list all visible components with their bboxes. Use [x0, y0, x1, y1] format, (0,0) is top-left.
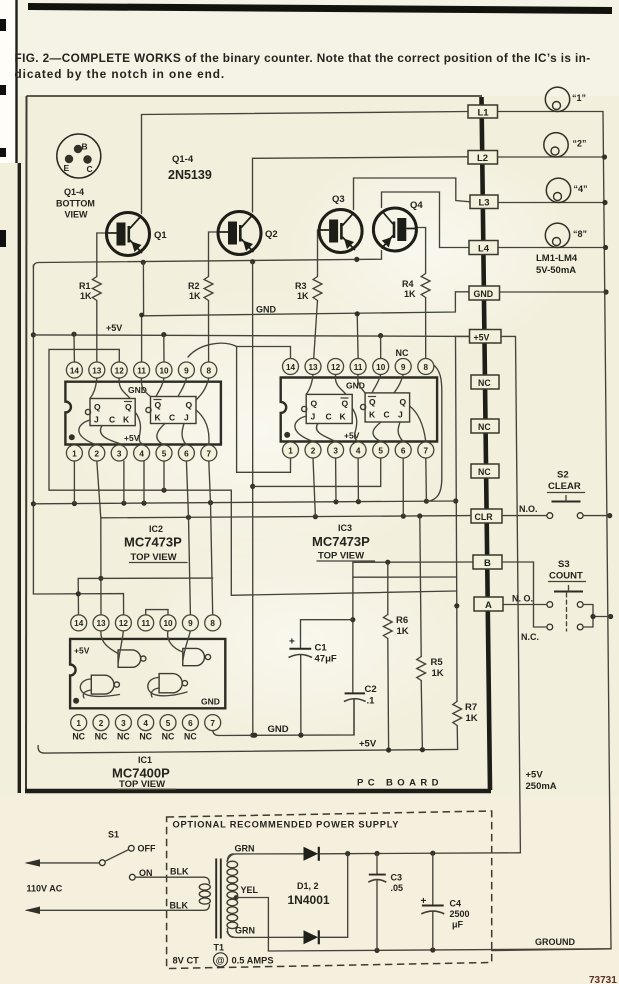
- svg-text:OFF: OFF: [138, 844, 156, 854]
- svg-text:“8”: “8”: [573, 229, 587, 239]
- capacitor C4: [421, 853, 470, 950]
- svg-text:13: 13: [92, 366, 102, 375]
- switch S3: [512, 559, 586, 642]
- node NC terminal 2: [471, 419, 499, 433]
- svg-text:MC7473P: MC7473P: [124, 535, 182, 550]
- wire: IC2 pin12 loop: [49, 349, 457, 595]
- IC1 pin 3: [115, 715, 131, 731]
- svg-text:S3: S3: [558, 559, 570, 570]
- IC3 pin 2: [305, 442, 321, 458]
- svg-text:Q: Q: [342, 399, 349, 409]
- svg-text:1K: 1K: [297, 291, 309, 301]
- svg-text:S2: S2: [557, 470, 569, 481]
- svg-text:ON: ON: [139, 868, 153, 878]
- svg-text:2: 2: [95, 449, 100, 458]
- wire: L3 lamp wire: [498, 202, 605, 204]
- wire: Q2 collector to L2: [253, 157, 469, 212]
- wire: left vertical feeder: [31, 265, 36, 594]
- svg-text:NC: NC: [478, 378, 491, 388]
- wire: emitter rail: [33, 251, 381, 269]
- svg-text:11: 11: [141, 619, 150, 628]
- svg-text:+5V: +5V: [124, 433, 140, 443]
- svg-text:14: 14: [74, 619, 84, 628]
- node L3 terminal: [470, 195, 498, 209]
- transistor Q1: [107, 213, 168, 256]
- svg-text:R4: R4: [402, 279, 414, 289]
- svg-text:2: 2: [311, 446, 316, 455]
- resistor R7: [453, 702, 478, 750]
- node GND terminal: [469, 286, 500, 300]
- svg-text:2N5139: 2N5139: [168, 168, 212, 182]
- label 8V CT @ 0.5 AMPS: [173, 953, 274, 967]
- resistor R2: [188, 232, 218, 362]
- IC2 pin 12: [111, 362, 127, 378]
- svg-text:10: 10: [376, 363, 386, 372]
- node NC terminal 1: [471, 375, 499, 389]
- label IC1 MC7400P TOP VIEW: [112, 755, 176, 790]
- IC1 pin 5: [160, 715, 176, 731]
- IC2 internal flip-flop 2: [146, 397, 196, 424]
- svg-text:0.5 AMPS: 0.5 AMPS: [232, 956, 274, 966]
- resistor R1: [79, 233, 107, 362]
- label D1,2 1N4001: [288, 881, 330, 907]
- lamp LM3: [546, 178, 587, 202]
- svg-text:IC1: IC1: [138, 755, 152, 765]
- svg-text:1K: 1K: [432, 668, 444, 679]
- IC2 internal wiring curves: [79, 378, 209, 445]
- svg-text:Q3: Q3: [332, 194, 345, 205]
- svg-text:Q4: Q4: [410, 200, 423, 211]
- svg-text:1K: 1K: [189, 291, 201, 301]
- IC1 pin 14: [71, 615, 87, 631]
- svg-text:L1: L1: [478, 108, 490, 119]
- wire: IC1 pins 11-10 bridge: [146, 610, 168, 615]
- IC1 pin 1: [71, 715, 87, 731]
- resistor R3: [295, 230, 327, 362]
- svg-text:μF: μF: [452, 920, 464, 930]
- svg-text:R2: R2: [188, 281, 200, 291]
- IC1 NAND gate C: [80, 675, 119, 698]
- wire: IC2 pin6 to IC1 pin9: [186, 461, 190, 615]
- node +5V terminal: [470, 330, 502, 344]
- svg-text:.1: .1: [367, 696, 376, 707]
- svg-text:J: J: [311, 412, 316, 422]
- IC2 pin 3: [111, 445, 127, 461]
- svg-text:8: 8: [424, 363, 429, 372]
- op-amp U_IC3 body MC7473P: [281, 378, 437, 442]
- svg-text:OPTIONAL RECOMMENDED POWER SUP: OPTIONAL RECOMMENDED POWER SUPPLY: [173, 820, 400, 830]
- svg-text:6: 6: [184, 449, 189, 458]
- lamp LM1: [545, 87, 586, 111]
- IC3 pin 8: [418, 359, 434, 375]
- wire: clear rail y517: [101, 513, 471, 520]
- IC2 pin 11: [134, 362, 150, 378]
- wire: IC2 pin5 stub: [163, 461, 165, 490]
- wire: D2 riser: [320, 854, 348, 938]
- wire: IC3 pin4 stub: [357, 458, 359, 502]
- svg-text:1: 1: [76, 719, 81, 728]
- IC3 internal flip-flop 1: [302, 394, 353, 423]
- svg-text:dicated by the notch in one en: dicated by the notch in one end.: [15, 67, 226, 81]
- wire: AC line lower with arrow: [25, 907, 205, 915]
- lamp LM4: [545, 223, 587, 247]
- svg-text:+5V: +5V: [526, 770, 544, 781]
- wire: AC line upper with arrow: [25, 859, 100, 866]
- IC2 pin 6: [178, 445, 194, 461]
- svg-text:+: +: [289, 637, 295, 648]
- svg-text:N.C.: N.C.: [521, 632, 539, 642]
- svg-text:NC: NC: [95, 732, 108, 742]
- IC1 pin 10: [160, 615, 176, 631]
- left gutter bar: [18, 163, 21, 793]
- transistor Q4: [373, 200, 423, 251]
- transformer T1: [199, 854, 238, 953]
- svg-text:BLK: BLK: [170, 900, 189, 910]
- wire: C1 to C2 top link: [301, 619, 353, 621]
- wire: right ground rail: [492, 112, 614, 951]
- svg-text:B: B: [82, 142, 88, 152]
- svg-text:Q: Q: [311, 399, 318, 409]
- wire: S3 common to right rail: [583, 605, 610, 628]
- svg-text:10: 10: [163, 619, 173, 628]
- node L1 terminal: [468, 105, 498, 119]
- wire: CLR to S2: [502, 515, 610, 517]
- svg-text:8: 8: [210, 619, 215, 628]
- svg-text:8: 8: [207, 366, 212, 375]
- wire: rectifier output bus: [320, 851, 521, 857]
- wire: IC3 pin5 loop: [253, 458, 381, 486]
- svg-text:NC: NC: [72, 732, 85, 742]
- svg-text:LM1-LM4: LM1-LM4: [536, 253, 578, 264]
- node L2 terminal: [468, 151, 498, 165]
- svg-text:“2”: “2”: [573, 139, 587, 149]
- svg-text:11: 11: [137, 366, 146, 375]
- svg-text:NC: NC: [162, 732, 175, 742]
- svg-text:NC: NC: [478, 467, 491, 477]
- wire: Q1 collector to L1: [142, 112, 469, 214]
- svg-text:6: 6: [401, 446, 406, 455]
- wire: supply ground rail: [268, 947, 611, 953]
- svg-text:C: C: [384, 410, 390, 420]
- svg-text:@: @: [216, 955, 225, 965]
- IC3 pin 10: [373, 359, 389, 375]
- wire: IC2 pin10 stub: [163, 335, 165, 362]
- svg-text:.05: .05: [391, 883, 404, 893]
- svg-text:4: 4: [139, 449, 144, 458]
- svg-text:S1: S1: [108, 830, 119, 840]
- svg-text:R5: R5: [431, 657, 444, 668]
- left margin white box: [0, 0, 16, 163]
- IC3 internal flip-flop 2: [361, 393, 410, 422]
- svg-text:R3: R3: [295, 281, 307, 291]
- resistor R5: [417, 516, 444, 749]
- wire: IC3 pin11 stub: [355, 311, 360, 358]
- svg-text:3: 3: [117, 449, 122, 458]
- svg-text:1: 1: [72, 449, 77, 458]
- svg-text:250mA: 250mA: [526, 781, 557, 792]
- svg-text:R1: R1: [79, 281, 91, 291]
- IC1 pin 7: [205, 715, 221, 731]
- label IC2 MC7473P TOP VIEW: [124, 524, 187, 563]
- svg-text:47μF: 47μF: [315, 654, 337, 665]
- IC3 pin 5: [373, 442, 389, 458]
- svg-text:N.O.: N.O.: [519, 504, 538, 514]
- svg-text:+5V: +5V: [359, 739, 377, 750]
- IC1 pin 8: [205, 615, 221, 631]
- wire: L2 lamp wire: [498, 156, 605, 158]
- IC2 pin 7: [201, 445, 217, 461]
- svg-text:7: 7: [207, 449, 212, 458]
- wire: IC3 pin8 side loop: [428, 364, 442, 501]
- svg-text:1K: 1K: [397, 626, 409, 637]
- IC3 pin 4: [350, 442, 366, 458]
- svg-text:TOP VIEW: TOP VIEW: [318, 551, 364, 562]
- svg-text:K: K: [155, 413, 162, 423]
- op-amp U_IC2 body MC7473P: [65, 382, 221, 445]
- IC2 pin 4: [134, 445, 150, 461]
- svg-text:BOTTOM: BOTTOM: [56, 199, 95, 209]
- svg-text:NC: NC: [139, 732, 152, 742]
- svg-text:12: 12: [331, 363, 341, 372]
- wire: +5V bottom rail: [38, 746, 458, 754]
- svg-text:T1: T1: [214, 943, 225, 953]
- svg-text:3: 3: [121, 719, 126, 728]
- svg-text:K: K: [123, 415, 130, 425]
- svg-text:4: 4: [143, 719, 148, 728]
- svg-text:2500: 2500: [450, 909, 470, 919]
- svg-text:14: 14: [70, 366, 80, 375]
- IC3 internal wiring curves: [295, 375, 426, 442]
- svg-text:13: 13: [308, 363, 318, 372]
- label +5V 250mA: [526, 770, 557, 793]
- svg-text:L4: L4: [478, 244, 490, 255]
- svg-text:11: 11: [354, 363, 363, 372]
- svg-text:Q: Q: [125, 402, 132, 412]
- label LM1-LM4 5V-50mA: [536, 253, 578, 276]
- svg-text:1K: 1K: [466, 713, 478, 724]
- svg-text:+5V: +5V: [74, 646, 90, 656]
- IC3 pin 12: [328, 359, 344, 375]
- label Q1-4 2N5139: [168, 154, 212, 182]
- svg-text:NC: NC: [396, 348, 409, 358]
- wire: IC3 pin1 loop: [237, 347, 291, 473]
- wire: IC2 pin14 stub: [73, 334, 75, 361]
- svg-text:VIEW: VIEW: [65, 210, 89, 220]
- svg-text:BLK: BLK: [170, 867, 189, 877]
- wire: IC2 pin9 to IC3 pin14 loop: [188, 343, 291, 357]
- svg-text:C: C: [109, 415, 115, 425]
- node NC terminal 3: [471, 464, 499, 478]
- wire: IC2 pin1 stub: [73, 461, 75, 504]
- IC2 pin 1: [66, 445, 82, 461]
- node A terminal: [474, 597, 503, 611]
- wire: C2 to +5V link y577: [353, 576, 457, 578]
- wire: IC2 pin7 to IC1 pin8: [209, 461, 213, 615]
- svg-text:K: K: [369, 410, 376, 420]
- IC1 pin 13: [93, 615, 109, 631]
- svg-text:4: 4: [356, 446, 361, 455]
- svg-text:A: A: [485, 600, 492, 611]
- wire: L4 lamp wire: [498, 247, 606, 249]
- wire: IC1 pin14 feed rail y578: [78, 578, 213, 614]
- svg-text:7: 7: [424, 446, 429, 455]
- svg-text:IC3: IC3: [338, 523, 352, 533]
- svg-text:9: 9: [184, 366, 189, 375]
- svg-text:C4: C4: [450, 899, 462, 909]
- svg-text:5: 5: [378, 446, 383, 455]
- svg-text:5: 5: [166, 719, 171, 728]
- wire: Q2 emitter ground drop: [250, 262, 255, 738]
- IC2 pin 2: [89, 445, 105, 461]
- svg-text:D1, 2: D1, 2: [297, 881, 319, 891]
- wire: +5V distribution rail y501: [33, 499, 455, 507]
- IC3 pin 9: [395, 359, 411, 375]
- IC3 pin 13: [305, 359, 321, 375]
- lamp LM2: [544, 133, 587, 157]
- IC1 NAND gate D: [148, 674, 188, 697]
- svg-text:8V CT: 8V CT: [173, 956, 200, 966]
- svg-text:TOP VIEW: TOP VIEW: [131, 552, 177, 563]
- svg-text:110V AC: 110V AC: [27, 884, 63, 894]
- svg-text:3: 3: [333, 446, 338, 455]
- svg-text:Q: Q: [186, 400, 193, 410]
- IC2 pin 9: [178, 362, 194, 378]
- IC2 pin 14: [66, 362, 82, 378]
- svg-text:C3: C3: [391, 873, 403, 883]
- svg-text:10: 10: [159, 366, 169, 375]
- svg-text:R7: R7: [465, 702, 477, 713]
- op-amp U_IC1 body MC7400P: [70, 639, 225, 708]
- IC3 pin 11: [350, 359, 366, 375]
- IC3 pin 14: [283, 359, 299, 375]
- svg-text:12: 12: [119, 619, 129, 628]
- svg-text:Q1-4: Q1-4: [172, 154, 194, 165]
- svg-text:COUNT: COUNT: [549, 571, 583, 582]
- node B terminal: [473, 555, 502, 569]
- svg-text:Q: Q: [369, 397, 376, 407]
- wire: IC2 pin11 stub: [139, 313, 144, 362]
- wire: IC3 pin2 stub: [313, 458, 315, 517]
- wire: IC3 pin6 stub: [402, 458, 404, 516]
- svg-text:1N4001: 1N4001: [288, 893, 330, 907]
- svg-text:+5V: +5V: [344, 431, 360, 441]
- svg-text:6: 6: [188, 719, 193, 728]
- switch S2: [519, 470, 585, 519]
- wire: IC1 left feed rail y594: [33, 591, 123, 614]
- svg-text:9: 9: [401, 363, 406, 372]
- wire: +5V rail: [33, 332, 469, 339]
- IC1 NAND gate B: [168, 631, 211, 666]
- IC1 pin 11: [138, 615, 154, 631]
- IC1 pin 12: [115, 615, 131, 631]
- svg-text:NC: NC: [117, 732, 130, 742]
- IC1 pin 9: [182, 615, 198, 631]
- svg-text:PC BOARD: PC BOARD: [357, 778, 443, 789]
- svg-text:R6: R6: [396, 615, 408, 626]
- svg-text:GND: GND: [256, 305, 277, 315]
- svg-text:J: J: [184, 413, 189, 423]
- svg-text:IC2: IC2: [149, 524, 163, 534]
- wire: B rail y562: [353, 560, 473, 565]
- svg-text:GROUND: GROUND: [535, 937, 575, 947]
- svg-text:CLEAR: CLEAR: [548, 481, 581, 492]
- svg-text:9: 9: [188, 619, 193, 628]
- IC3 pin 6: [395, 442, 411, 458]
- transistor Q3: [319, 194, 362, 253]
- IC3 pin 7: [418, 442, 434, 458]
- svg-text:C1: C1: [315, 643, 328, 654]
- svg-text:C: C: [326, 412, 332, 422]
- switch S1: [99, 830, 156, 881]
- capacitor C1: [289, 620, 337, 735]
- svg-text:J: J: [398, 410, 403, 420]
- svg-text:5V-50mA: 5V-50mA: [536, 265, 576, 276]
- svg-text:GND: GND: [474, 289, 494, 299]
- IC3 pin 3: [328, 442, 344, 458]
- IC1 pin 2: [93, 715, 109, 731]
- wire: Q3 collector to L3: [354, 178, 471, 210]
- svg-text:13: 13: [96, 619, 106, 628]
- IC2 pin 10: [156, 362, 172, 378]
- transistor Q1-4 bottom view: [56, 134, 101, 220]
- node CLR terminal: [471, 509, 502, 523]
- svg-text:+5V: +5V: [474, 333, 490, 343]
- svg-text:K: K: [340, 412, 347, 422]
- svg-text:GND: GND: [201, 697, 220, 707]
- wire: IC2 pin4 stub: [143, 461, 145, 503]
- svg-text:B: B: [484, 558, 491, 569]
- label NC pins IC1: [72, 732, 197, 742]
- IC1 NAND gate A: [101, 631, 146, 667]
- wire: Q4 collector to L4: [382, 192, 470, 248]
- svg-text:MC7473P: MC7473P: [312, 534, 370, 549]
- wire: center tap YEL: [236, 885, 268, 951]
- svg-text:GRN: GRN: [235, 926, 255, 936]
- svg-text:73731: 73731: [589, 975, 617, 984]
- capacitor C3: [368, 854, 403, 951]
- wire: B to S3 normally-closed: [502, 562, 547, 627]
- svg-text:C2: C2: [365, 684, 377, 695]
- svg-text:“4”: “4”: [574, 184, 588, 194]
- svg-text:Q2: Q2: [265, 229, 278, 240]
- wire: switch to transformer primary: [135, 876, 204, 878]
- wire: IC3 pin10 stub: [380, 336, 382, 358]
- transistor Q2: [218, 212, 278, 255]
- svg-text:2: 2: [99, 719, 104, 728]
- wire: +5V left side rail: [453, 336, 469, 701]
- svg-text:CLR: CLR: [475, 512, 494, 522]
- svg-text:+5V: +5V: [106, 323, 122, 333]
- svg-text:1K: 1K: [404, 289, 416, 299]
- svg-text:GND: GND: [268, 724, 289, 735]
- svg-text:L2: L2: [477, 153, 488, 164]
- svg-text:YEL: YEL: [241, 885, 259, 895]
- svg-text:C: C: [169, 413, 175, 423]
- resistor R6: [383, 562, 408, 749]
- diode D2: [304, 930, 319, 944]
- svg-text:7: 7: [210, 719, 215, 728]
- svg-text:FIG. 2—COMPLETE WORKS of the b: FIG. 2—COMPLETE WORKS of the binary coun…: [15, 51, 591, 65]
- wire: IC3 pin7 stub: [425, 458, 428, 501]
- wire: GND rail to GND terminal: [143, 262, 469, 316]
- svg-text:GRN: GRN: [235, 844, 255, 854]
- svg-text:NC: NC: [478, 422, 491, 432]
- svg-text:C: C: [87, 164, 93, 174]
- wire: IC3 pin3 stub: [335, 458, 337, 502]
- wire: secondary top GRN to D1: [227, 844, 304, 862]
- power supply dashed enclosure: [167, 811, 492, 969]
- svg-text:1: 1: [288, 446, 293, 455]
